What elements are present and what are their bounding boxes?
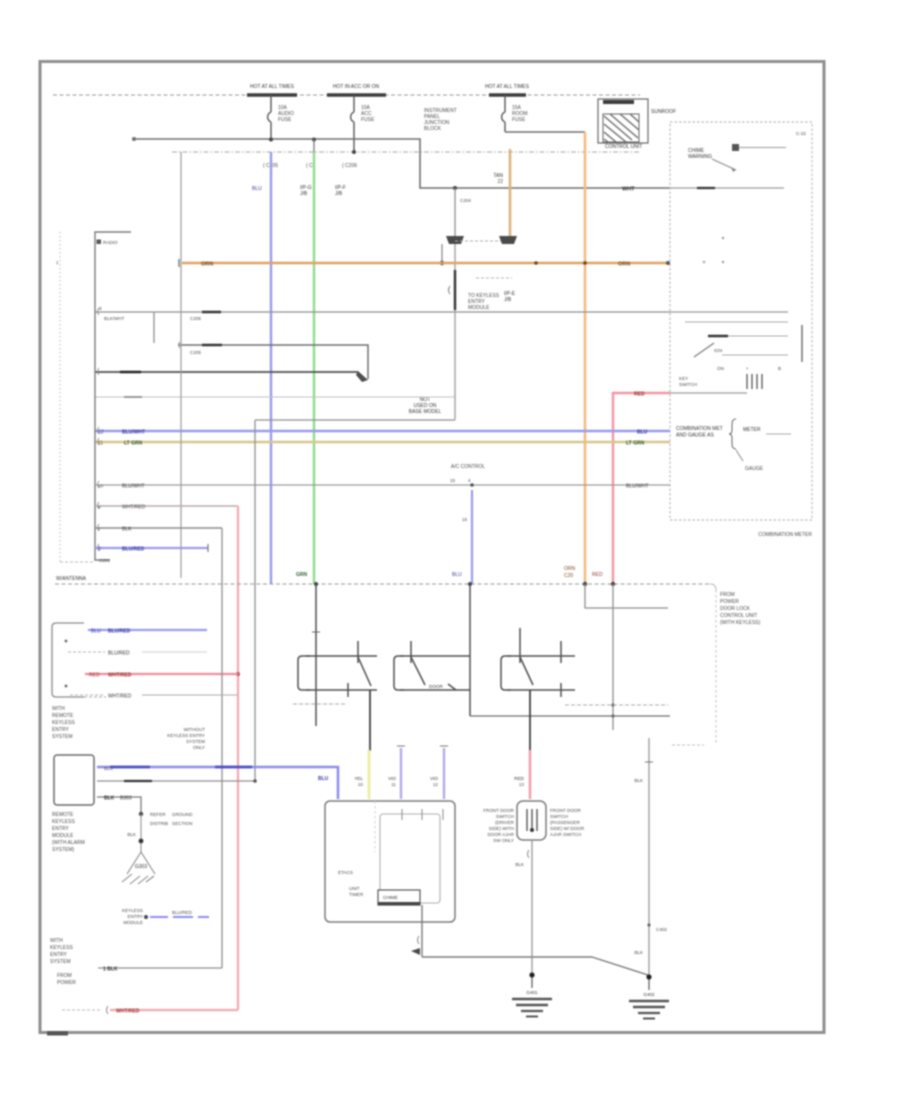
svg-text:C205: C205 (190, 350, 201, 355)
svg-text:C206: C206 (190, 316, 201, 321)
svg-text:A/C CONTROL: A/C CONTROL (451, 464, 485, 470)
black wire bottom row (98, 967, 222, 969)
gray wire x613 junction dots (611, 703, 614, 706)
radio row y548 blue (95, 547, 208, 549)
dashed vertical x716 (715, 590, 717, 745)
svg-text:BLU: BLU (318, 776, 329, 782)
svg-text:4: 4 (468, 478, 471, 483)
svg-text:BLU: BLU (452, 572, 462, 578)
chassis ground dot 2 (139, 839, 144, 844)
svg-text:SIDE) WITH: SIDE) WITH (489, 826, 514, 831)
violet wire drop 2 (443, 748, 445, 799)
door lead connector arc (528, 850, 530, 858)
x455 dark wire label (454, 270, 456, 310)
svg-text:KEYLESS: KEYLESS (52, 720, 75, 726)
svg-text:WHT/RED: WHT/RED (108, 694, 132, 700)
switch wire tick (312, 631, 320, 633)
svg-text:WHT/RED: WHT/RED (116, 1009, 140, 1015)
red wire bottom row (110, 1009, 238, 1011)
relay output wire (421, 905, 423, 957)
relay inner pin ticks (401, 809, 403, 820)
svg-text:G401: G401 (526, 990, 538, 995)
svg-text:SW ONLY: SW ONLY (493, 838, 514, 843)
svg-text:MODULE: MODULE (52, 833, 74, 839)
wire A left end blob (132, 137, 136, 141)
svg-text:SYSTEM: SYSTEM (186, 739, 205, 744)
tan wire row y442 (95, 441, 670, 444)
svg-text:( C206: ( C206 (342, 163, 357, 169)
svg-text:C-22: C-22 (796, 131, 806, 136)
yellow wire drop (368, 750, 371, 799)
cluster row y312 (670, 311, 788, 313)
svg-text:RED: RED (634, 392, 645, 398)
connector C2 bottom dashes (84, 696, 106, 698)
svg-text:BLU/RED: BLU/RED (122, 547, 145, 553)
svg-text:SIDE) W/ DOOR: SIDE) W/ DOOR (550, 826, 585, 831)
svg-text:LT GRN: LT GRN (124, 441, 143, 447)
right ground wire tick (645, 761, 653, 763)
gray return wire x255 (97, 420, 255, 781)
row485 junction dot (470, 483, 474, 487)
ground symbol G303 (122, 843, 155, 884)
svg-text:FUSE: FUSE (361, 117, 375, 123)
chime pointer arrow (712, 159, 736, 170)
switch cell 2 (394, 641, 470, 690)
fuse box bold segment 1 (247, 93, 297, 96)
relay coil dark bottom (378, 902, 420, 906)
svg-text:BLU: BLU (637, 430, 648, 436)
black wire vertical x222 (221, 528, 223, 968)
svg-text:ON: ON (717, 366, 724, 371)
long vertical wire x181 (180, 152, 182, 578)
svg-text:HOT AT ALL TIMES: HOT AT ALL TIMES (485, 84, 530, 90)
svg-text:GROUND: GROUND (172, 812, 193, 817)
ground symbol G402 (629, 979, 669, 1019)
svg-text:8: 8 (99, 306, 102, 311)
radio row y345 (179, 345, 368, 379)
dashes y745 (672, 744, 704, 746)
svg-text:FRONT DOOR: FRONT DOOR (483, 808, 514, 813)
switch cell 3 (501, 628, 575, 697)
chime component (732, 144, 739, 151)
radio row y345 tick (179, 342, 181, 348)
svg-text:10: 10 (358, 782, 364, 787)
C2 dashed row 2 tail (142, 694, 238, 696)
svg-text:MODULE: MODULE (468, 305, 490, 311)
svg-text:BLK/WHT: BLK/WHT (104, 316, 125, 321)
connector wedge 2 (499, 236, 517, 244)
svg-text:BLK: BLK (127, 832, 137, 837)
radio row y345 wire label (202, 344, 222, 346)
radio box top tick (97, 240, 102, 245)
ground dot left (529, 972, 534, 977)
blue dashed row dot (144, 915, 148, 919)
radio row y312 (95, 311, 670, 313)
svg-text:BLU: BLU (252, 186, 262, 192)
svg-text:9: 9 (98, 505, 101, 510)
frame corner tick (47, 1031, 68, 1036)
svg-text:ORN: ORN (564, 566, 576, 572)
svg-text:ONLY: ONLY (193, 745, 205, 750)
ground lead (140, 814, 142, 840)
svg-text:SYSTEM): SYSTEM) (52, 847, 75, 853)
dashed bus corner (710, 584, 716, 590)
center dashed bus y584 (55, 583, 710, 585)
red wire to cluster (613, 393, 670, 585)
right ground small dot (647, 923, 650, 926)
C2 dashed row 2 (70, 694, 105, 696)
svg-text:VIO: VIO (388, 776, 396, 781)
chassis ground dot 1 (139, 812, 143, 816)
svg-text:REFER: REFER (150, 812, 166, 817)
svg-text:HOT AT ALL TIMES: HOT AT ALL TIMES (250, 84, 295, 90)
relay inner box (380, 814, 440, 903)
svg-text:BLK: BLK (515, 862, 525, 867)
relay K1 (598, 99, 648, 143)
svg-text:BLU/WHT: BLU/WHT (122, 484, 145, 490)
C2 blue row (88, 629, 207, 631)
svg-text:5: 5 (98, 547, 101, 553)
svg-text:KEYLESS ENTRY: KEYLESS ENTRY (167, 733, 205, 738)
red wire vertical long (237, 506, 239, 1010)
green wire vertical (313, 152, 315, 584)
svg-text:BLK: BLK (634, 950, 644, 955)
fuse F3 output wire (505, 131, 585, 133)
gray wire from orange bus (585, 584, 668, 608)
wire y420 horizontal (255, 419, 455, 421)
radio row y528 (95, 527, 222, 529)
svg-text:DOOR AJAR: DOOR AJAR (487, 832, 514, 837)
radio row y312 wire label dark (202, 311, 221, 313)
relay output connector arc (418, 936, 420, 944)
cluster row y393 internal (670, 392, 747, 394)
svg-text:SECTION: SECTION (172, 821, 192, 826)
svg-text:RED: RED (89, 673, 100, 679)
orange end dot (666, 261, 670, 265)
orange wire vertical (584, 132, 587, 584)
radio row y372 wire label (120, 371, 141, 374)
bus junction dot red (611, 582, 615, 586)
bracket diagonal (736, 450, 743, 461)
svg-text:BLU/WHT: BLU/WHT (122, 430, 145, 436)
curly bracket (729, 419, 736, 449)
svg-text:11: 11 (98, 441, 103, 447)
svg-text:KEYLESS: KEYLESS (50, 945, 73, 951)
cluster row y336 (708, 335, 788, 337)
violet drop 1 tick (397, 745, 405, 747)
lower connector dashes (476, 277, 512, 279)
svg-text:KEYLESS: KEYLESS (122, 908, 143, 913)
combination meter box (670, 122, 812, 520)
gray wire below red (612, 584, 614, 730)
svg-text:CONTROL UNIT: CONTROL UNIT (720, 613, 757, 619)
x455 connector arc (449, 286, 451, 294)
switch cell 1 output (369, 690, 371, 751)
svg-text:AJAR SWITCH: AJAR SWITCH (550, 832, 581, 837)
orange junction dot at vertical (583, 261, 587, 265)
svg-text:CONTROL UNIT: CONTROL UNIT (605, 144, 642, 150)
svg-text:7: 7 (98, 527, 101, 532)
ground symbol G401 (512, 977, 552, 1017)
thick blue label seg 2 (215, 766, 252, 769)
svg-text:RED: RED (592, 572, 603, 578)
violet wire drop 1 (400, 748, 402, 799)
svg-text:RED: RED (514, 776, 524, 781)
svg-text:COMBINATION MET: COMBINATION MET (676, 426, 723, 432)
svg-text:TIMER: TIMER (349, 892, 364, 897)
svg-text:1: 1 (56, 260, 59, 265)
svg-text:MODULE: MODULE (123, 920, 143, 925)
svg-text:BLU: BLU (104, 766, 113, 771)
junction dot green drop (312, 138, 316, 142)
svg-text:J/B: J/B (335, 191, 343, 197)
svg-text:ENTRY: ENTRY (128, 914, 144, 919)
fuse F3 (502, 95, 505, 132)
return wire label (124, 780, 152, 782)
svg-text:FROM: FROM (57, 973, 72, 979)
svg-text:AND GAUGE AS: AND GAUGE AS (676, 433, 714, 439)
svg-text:COMBINATION METER: COMBINATION METER (758, 532, 812, 538)
svg-text:LT GRN: LT GRN (626, 441, 645, 447)
svg-text:BLK: BLK (634, 778, 644, 783)
switch cell 3 output (529, 690, 531, 751)
red wire branch to connector (85, 673, 238, 675)
svg-text:BLK: BLK (104, 796, 115, 802)
wedge gap dashes (455, 240, 505, 242)
svg-text:RADIO: RADIO (103, 240, 118, 245)
svg-text:11: 11 (391, 782, 396, 787)
arrow head (356, 371, 368, 382)
svg-text:FRONT DOOR: FRONT DOOR (550, 808, 581, 813)
svg-text:KEYLESS: KEYLESS (52, 819, 75, 825)
orange wire start tick (178, 259, 180, 267)
svg-text:WHT/RED: WHT/RED (122, 505, 146, 511)
svg-text:(WITH ALARM: (WITH ALARM (52, 840, 85, 846)
svg-text:ORN: ORN (201, 262, 213, 268)
violet drop 2 tick (440, 745, 448, 747)
border frame (40, 62, 824, 1033)
door switch ground lead (531, 840, 533, 975)
cluster specks (722, 237, 724, 239)
svg-text:ETACS: ETACS (338, 870, 353, 875)
svg-text:C402: C402 (656, 927, 667, 932)
cluster row y322 (685, 321, 788, 323)
svg-text:10: 10 (98, 484, 104, 489)
svg-text:REMOTE: REMOTE (52, 713, 74, 719)
door switch contact dot (530, 828, 534, 832)
thick blue wire from module (97, 767, 338, 799)
cluster switch row y355 (722, 354, 788, 356)
svg-text:BLU/RED: BLU/RED (108, 651, 130, 657)
relay output arrow mark (411, 948, 420, 955)
wedge lead to orange (441, 244, 443, 263)
svg-text:12: 12 (98, 430, 104, 436)
svg-text:ENTRY: ENTRY (50, 952, 68, 958)
junction dot fuse2 bottom (352, 150, 356, 154)
antenna stub (153, 312, 155, 343)
thick blue label seg 1 (110, 766, 150, 769)
fuse F2 (351, 95, 354, 152)
blue stub wire x472 (471, 490, 473, 584)
antenna shield bracket bottom (60, 561, 95, 563)
svg-text:BLU/RED: BLU/RED (108, 629, 131, 635)
fuse F1 (268, 95, 271, 140)
orange junction dot mid (534, 261, 538, 265)
ground dot right (646, 974, 651, 979)
svg-text:UNIT: UNIT (349, 886, 360, 891)
svg-text:FUSE: FUSE (278, 117, 292, 123)
fuse box bold segment 3 (489, 93, 526, 96)
blue wire row y431 (95, 430, 670, 432)
svg-text:ENTRY: ENTRY (52, 727, 70, 733)
blue wire vertical from F1 (270, 152, 272, 584)
svg-text:G402: G402 (643, 992, 655, 997)
svg-text:1 BLK: 1 BLK (103, 967, 118, 973)
svg-text:POWER: POWER (57, 980, 76, 986)
svg-text:FROM: FROM (720, 592, 735, 598)
relay coil box (378, 890, 420, 905)
fusebox bottom dash-dot line (172, 151, 640, 153)
svg-text:WITH: WITH (52, 706, 65, 712)
bracket lead line (766, 433, 791, 435)
antenna shield bracket vertical (59, 232, 61, 562)
svg-text:J/B: J/B (300, 191, 308, 197)
svg-text:HOT IN ACC OR ON: HOT IN ACC OR ON (333, 84, 380, 90)
svg-text:BLK: BLK (122, 527, 132, 533)
side bar indicator (801, 325, 803, 362)
fuse box bold segment 2 (327, 93, 386, 96)
svg-text:J/B: J/B (504, 297, 512, 303)
svg-text:13: 13 (519, 782, 525, 787)
svg-text:15: 15 (450, 478, 456, 483)
svg-text:VIO: VIO (430, 776, 438, 781)
ETACS relay box (325, 801, 455, 922)
radio pin connector arcs (98, 308, 100, 551)
svg-text:SWITCH: SWITCH (550, 814, 568, 819)
buzzer bars (747, 374, 762, 389)
red bottom connector arc (107, 1006, 109, 1014)
svg-text:BLU/RED: BLU/RED (172, 910, 193, 915)
row548 end tick (207, 544, 209, 552)
svg-text:WHT: WHT (622, 187, 635, 193)
svg-text:FUSE: FUSE (512, 117, 526, 123)
dash below cell 1 (293, 703, 345, 705)
main switch wire x316 (315, 584, 317, 726)
svg-text:W/ANTENNA: W/ANTENNA (56, 576, 87, 582)
hot bus dashed line (53, 94, 640, 96)
radio row y372 (95, 371, 358, 373)
svg-text:BLOCK: BLOCK (424, 126, 442, 132)
svg-text:SWITCH: SWITCH (679, 382, 697, 387)
wire A from fuse F1 (133, 139, 670, 188)
svg-text:B: B (778, 366, 781, 371)
keyless module box (54, 755, 94, 805)
bus junction dot green (314, 582, 318, 586)
svg-text:BLU: BLU (91, 629, 101, 635)
cluster pin row y188 (670, 187, 784, 189)
svg-text:REMOTE: REMOTE (52, 812, 74, 818)
connector C2 pin dot 1 (65, 640, 68, 643)
svg-text:WITH: WITH (50, 938, 63, 944)
junction dot node at 455 (453, 186, 457, 190)
svg-text:G303: G303 (135, 864, 147, 870)
svg-text:SYSTEM: SYSTEM (50, 959, 71, 965)
red wire branch junction (236, 672, 240, 676)
cluster switch lever (694, 343, 714, 357)
svg-text:GRN: GRN (296, 572, 308, 578)
vertical wire x455 lower (454, 244, 456, 420)
blue dashed row y917 (150, 916, 209, 918)
radio row y485 (95, 484, 670, 486)
red bottom dashes (62, 1009, 100, 1011)
svg-text:ORN: ORN (618, 262, 630, 268)
chime component lead (739, 147, 786, 149)
connector wedge 1 (446, 236, 464, 244)
junction dot fuse1 bottom (269, 138, 273, 142)
svg-text:SWITCH: SWITCH (496, 814, 514, 819)
radio row y397 label (124, 396, 142, 398)
green wire gray stub (313, 139, 315, 152)
bus junction dot blue (468, 582, 472, 586)
svg-text:SYSTEM: SYSTEM (52, 734, 73, 740)
svg-text:KEY: KEY (679, 376, 688, 381)
svg-text:16: 16 (462, 517, 468, 522)
tall wire x470 (469, 586, 471, 716)
svg-text:ENTRY: ENTRY (52, 826, 70, 832)
relay output horizontal (422, 956, 592, 958)
svg-text:IGN: IGN (714, 348, 722, 353)
svg-text:DISTRIB: DISTRIB (150, 821, 168, 826)
relay output diagonal to ground (592, 957, 648, 975)
svg-text:SUNROOF: SUNROOF (651, 109, 676, 115)
bus junction dot orange (583, 582, 587, 586)
connector C2 pin dot 2 (65, 685, 68, 688)
C2 dashed row (68, 651, 105, 653)
svg-text:DOOR LOCK: DOOR LOCK (720, 606, 751, 612)
relay internal dashed divider (374, 801, 376, 852)
svg-text:B303: B303 (120, 796, 132, 802)
dash right of cell 3 (565, 704, 668, 706)
svg-text:C20: C20 (564, 573, 573, 579)
wire from x470 to right (470, 715, 670, 717)
right ground wire x649 (648, 738, 650, 975)
junction dot orange wedge (440, 261, 444, 265)
C2 dashed row tail (142, 651, 207, 653)
svg-text:CHIME: CHIME (383, 895, 398, 900)
svg-text:DOOR: DOOR (429, 684, 443, 689)
orange wire horizontal (182, 262, 668, 265)
svg-text:(DRIVER: (DRIVER (495, 820, 515, 825)
svg-text:YEL: YEL (354, 776, 363, 781)
radio row y506 (95, 505, 238, 507)
tan wire vertical (509, 149, 512, 238)
svg-text:(WITH KEYLESS): (WITH KEYLESS) (720, 620, 761, 626)
switch cell 1 (298, 641, 377, 697)
svg-text:WARNING: WARNING (688, 154, 712, 160)
radio box rail (95, 232, 131, 560)
svg-text:POWER: POWER (720, 599, 739, 605)
svg-text:METER: METER (743, 427, 761, 433)
svg-text:12: 12 (433, 782, 439, 787)
radio row y397 faint (95, 396, 455, 398)
svg-text:WITHOUT: WITHOUT (184, 727, 206, 732)
door switch plunger bars (527, 809, 537, 831)
cluster pin row y188 dark marks (697, 187, 715, 189)
door switch box (517, 801, 546, 840)
svg-text:GAUGE: GAUGE (745, 466, 764, 472)
return wire junction dot (253, 779, 257, 783)
module row y797 (97, 797, 141, 812)
